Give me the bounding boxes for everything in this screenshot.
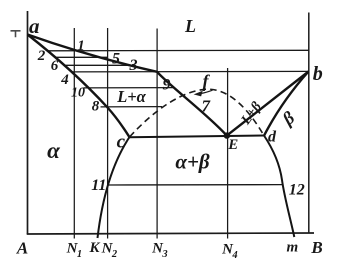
svg-text:1: 1	[77, 38, 85, 54]
svg-text:6: 6	[51, 58, 59, 74]
vertical composition line N2	[107, 28, 109, 239]
svg-text:d: d	[268, 129, 277, 146]
svg-text:K: K	[88, 240, 100, 256]
svg-text:9: 9	[163, 77, 171, 94]
arrow from f to dashed curve	[196, 90, 213, 96]
solidus a-c	[28, 35, 130, 138]
svg-text:m: m	[286, 240, 298, 256]
tie line t5 below point 10	[84, 87, 175, 89]
tie line t6 from point 8 to dashed curve	[101, 106, 163, 108]
liquidus a-E	[28, 35, 227, 136]
svg-text:7: 7	[202, 97, 212, 116]
svg-text:E: E	[227, 137, 238, 153]
svg-text:1: 1	[77, 249, 82, 260]
right axis	[308, 13, 310, 234]
vertical composition line N4	[227, 68, 229, 239]
liquidus b-E	[227, 72, 309, 136]
svg-text:A: A	[16, 239, 28, 258]
tie line t3 through points 4 and 3	[64, 64, 133, 66]
svg-text:8: 8	[92, 99, 100, 115]
svg-text:c: c	[117, 132, 126, 153]
svg-text:4: 4	[231, 250, 237, 261]
tie line t7 through points 11 and 12	[108, 184, 283, 186]
svg-text:a: a	[29, 14, 40, 38]
svg-text:5: 5	[112, 51, 120, 68]
svg-text:b: b	[313, 63, 323, 85]
tie line t4 through points 10, 9 and b	[71, 70, 308, 73]
eutectic line c-E-d	[130, 136, 265, 138]
dashed curve c-f-d	[130, 89, 265, 137]
solidus b-d	[264, 72, 309, 136]
svg-text:L+α: L+α	[116, 87, 146, 106]
svg-text:4: 4	[60, 72, 69, 88]
svg-text:10: 10	[71, 86, 85, 101]
T axis label	[11, 31, 21, 37]
vertical composition line N3	[156, 29, 158, 239]
vertical composition line N1	[73, 28, 75, 239]
solvus d-m	[264, 136, 294, 238]
svg-text:12: 12	[289, 182, 305, 199]
svg-text:3: 3	[161, 249, 167, 260]
svg-text:B: B	[310, 238, 322, 257]
tie line t2 through points 6 and 5	[55, 56, 108, 58]
left axis (temperature)	[27, 11, 29, 234]
bottom axis (composition)	[27, 233, 314, 234]
svg-text:2: 2	[37, 48, 46, 64]
svg-text:11: 11	[91, 177, 106, 194]
svg-text:α+β: α+β	[175, 150, 210, 174]
eutectic point E dot	[224, 132, 230, 138]
solvus c-K	[98, 137, 130, 238]
svg-text:2: 2	[111, 249, 118, 260]
svg-text:L: L	[184, 16, 196, 36]
svg-text:3: 3	[129, 57, 138, 74]
svg-text:α: α	[47, 138, 61, 163]
tie line t1 through points 2 and 1	[47, 49, 309, 52]
